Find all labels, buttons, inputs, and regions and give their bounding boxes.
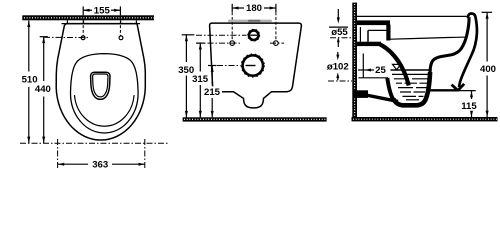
svg-text:155: 155 <box>94 5 111 16</box>
front face profile heavy (side) <box>459 14 477 88</box>
svg-text:315: 315 <box>192 74 209 85</box>
svg-text:115: 115 <box>461 101 477 112</box>
water hatch line 1 <box>392 73 429 75</box>
drain cavity back vline (side) <box>362 54 364 78</box>
svg-text:180: 180 <box>246 3 262 14</box>
dimension 215 <box>203 66 223 118</box>
left width extension centerline <box>57 139 59 170</box>
wall hatch band (plan) <box>22 15 154 20</box>
toilet outline (front) <box>210 23 302 108</box>
drain outlet blob (side) <box>354 90 368 98</box>
underside line (side) <box>428 89 459 91</box>
rim front bottom V right stroke (side) <box>458 84 464 90</box>
bolt hole right (plan) <box>119 36 123 40</box>
wall contact tick 3 <box>120 20 122 23</box>
water inlet circle serrated (front) <box>249 30 259 40</box>
flush outlet cup outer (plan) <box>91 72 110 99</box>
bowl back wall slope heavy (side) <box>380 45 409 86</box>
bolt hole left (front) <box>230 41 235 46</box>
drain center dash (front) <box>246 65 256 67</box>
water surface line (side) <box>391 69 431 71</box>
bowl rim outer superellipse (plan) <box>71 54 139 133</box>
dimension 155 <box>83 5 120 16</box>
water hatch line 5 <box>400 91 425 93</box>
bolt centerline (front) <box>196 42 240 44</box>
flush channel step vline 1 (side) <box>359 27 361 42</box>
dimension Ø55 <box>329 9 352 47</box>
dimension 180 <box>232 3 276 14</box>
bolt hole right (front) <box>274 41 279 46</box>
inlet centerline (front) <box>196 34 247 36</box>
drain circle outer (front) <box>243 55 263 75</box>
water hatch line 7 <box>406 99 419 101</box>
dimension 315 <box>191 43 211 117</box>
drain circle serration bumps (front) <box>241 54 264 77</box>
wall contact tick 4 <box>135 20 137 23</box>
bowl left wall heavy (side) <box>387 78 394 100</box>
floor hatch band (side) <box>352 117 498 121</box>
dimension 25 <box>358 65 386 76</box>
svg-text:25: 25 <box>375 65 386 76</box>
wall contact tick 2 <box>83 20 85 23</box>
dimension 115 <box>460 91 478 117</box>
front tangent centerline (plan) <box>20 142 168 144</box>
svg-text:ø102: ø102 <box>327 61 349 72</box>
wall hatch band (side) <box>352 3 357 118</box>
bolt hole left (plan) <box>81 36 85 40</box>
bolt extension dashed left (front) <box>231 12 233 40</box>
rim front bottom V left stroke (side) <box>452 85 458 91</box>
inlet drop corner (side) <box>386 25 390 41</box>
toilet outline (plan) <box>56 24 145 140</box>
dimension Ø102 <box>326 52 353 81</box>
flush channel bottom bar (side) <box>357 42 382 46</box>
svg-text:363: 363 <box>92 159 108 170</box>
dimension 363 <box>58 159 145 171</box>
bowl rim inner horseshoe arc (plan) <box>75 95 135 126</box>
trap weir and rim inner heavy curve (side) <box>430 17 469 72</box>
dimension 400 <box>479 12 499 117</box>
back edge contact line (plan) <box>62 23 141 25</box>
dimension 510 <box>20 21 41 143</box>
water hatch line 2 <box>394 78 428 80</box>
dimension 350 <box>177 35 197 118</box>
inlet center dash (front) <box>251 34 258 36</box>
svg-text:215: 215 <box>204 87 221 98</box>
flush outlet cup inner (plan) <box>93 74 108 97</box>
floor hatch band (front) <box>183 117 327 121</box>
flush channel step vline 2 (side) <box>367 30 369 41</box>
water hatch line 6 <box>403 95 424 97</box>
drain cavity bottom hline (side) <box>358 77 388 79</box>
dimension 440 <box>33 37 53 143</box>
rim channel inner thin line (side) <box>391 37 466 39</box>
inlet spigot bar (side) <box>357 20 391 25</box>
bolt extension dashed right (front) <box>275 12 277 40</box>
wall contact tick 1 <box>66 20 68 23</box>
drain channel bottom slope (side) <box>366 95 398 102</box>
ceramic top gray band dark middle <box>248 20 261 22</box>
water hatch line 3 <box>396 82 427 84</box>
water hatch line 4 <box>398 87 427 89</box>
ceramic top gray band (front) <box>228 20 272 23</box>
water level symbol triangle (side) <box>393 64 401 69</box>
bolt centerline (plan) <box>44 36 88 38</box>
right width extension centerline <box>144 139 146 170</box>
svg-text:400: 400 <box>480 64 496 75</box>
water inlet circle serration bumps (front) <box>248 29 260 41</box>
drain centerline (front) <box>217 65 241 67</box>
bowl U heavy (side) <box>394 72 431 105</box>
bolt centerline right stub (front) <box>270 42 284 44</box>
bolt hole extension dashed lines (plan) <box>82 20 84 35</box>
svg-text:ø55: ø55 <box>331 27 348 38</box>
svg-text:440: 440 <box>35 84 51 95</box>
flush channel step hline (side) <box>368 29 389 31</box>
top surface line (side) <box>357 15 467 17</box>
underside extension thin (side) <box>442 90 476 92</box>
